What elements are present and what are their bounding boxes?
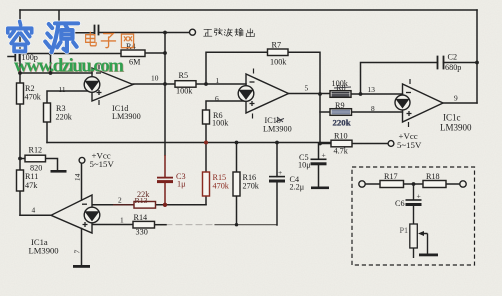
wire top feedback rail	[20, 9, 477, 11]
svg-text:820: 820	[30, 164, 42, 173]
svg-text:5: 5	[305, 84, 309, 93]
svg-text:10: 10	[151, 74, 159, 83]
wire C5 bottom lead	[318, 165, 320, 187]
wire C6 to P1	[413, 206, 415, 224]
wire node A to R4	[51, 52, 166, 55]
svg-text:470k: 470k	[25, 93, 42, 102]
svg-text:+: +	[278, 168, 282, 177]
wire R16 top	[236, 143, 238, 173]
ground under C5	[311, 187, 329, 190]
wire top cap stub	[59, 11, 94, 33]
svg-text:9: 9	[454, 94, 458, 103]
resistor R18	[423, 181, 446, 188]
label sine wave output	[204, 28, 255, 36]
junction R10 C5	[318, 142, 322, 146]
wire R8 to IC1c minus	[351, 93, 403, 95]
char chu	[246, 29, 254, 37]
resistor R14 330	[133, 221, 155, 228]
junction node B output	[163, 31, 167, 35]
terminal Vcc2	[388, 141, 394, 147]
svg-text:1μ: 1μ	[177, 180, 186, 189]
char xian	[214, 28, 222, 35]
wire R7 left riser	[206, 52, 268, 84]
wire right rail from top to IC1c output	[476, 10, 478, 103]
wire IC1a output pin4	[20, 214, 51, 216]
junction node B pin10	[163, 82, 167, 86]
svg-text:4.7k: 4.7k	[334, 147, 349, 156]
svg-text:R18: R18	[426, 172, 440, 181]
wire C2 to right rail	[444, 62, 478, 64]
svg-text:220k: 220k	[333, 118, 351, 128]
svg-text:R11: R11	[25, 172, 38, 181]
wire R6 bottom	[205, 124, 207, 143]
svg-text:47k: 47k	[25, 181, 38, 190]
resistor R4 6M	[121, 50, 145, 57]
strike IC1b	[276, 117, 284, 122]
wire R3 bottom to long rail	[46, 122, 48, 143]
wire IC1d output pin10	[133, 83, 246, 85]
svg-text:680p: 680p	[445, 63, 461, 72]
wire P1 bottom stub	[413, 248, 415, 258]
wire C4 top lead	[276, 143, 278, 177]
junction C2 right rail	[475, 61, 479, 65]
capacitor C6	[406, 199, 422, 201]
svg-text:C6: C6	[395, 199, 405, 208]
watermark orange char Wang	[121, 34, 133, 48]
wire IC1d minus input	[20, 72, 92, 74]
wire R15 bottom	[205, 196, 207, 205]
wire Vcc1 down to IC1a pin14	[81, 163, 83, 200]
svg-text:R5: R5	[179, 71, 189, 80]
resistor R17	[380, 181, 404, 188]
resistor R11 47k	[17, 170, 24, 191]
junction node 13	[359, 92, 363, 96]
svg-text:2.2μ: 2.2μ	[290, 183, 305, 192]
opamp IC1d	[84, 65, 133, 106]
wire node B vertical	[164, 33, 166, 156]
wire long middle rail	[47, 142, 331, 144]
wire R10 branch to Vcc terminal	[320, 143, 388, 145]
junction dot red R6 R15	[204, 141, 208, 145]
opamp IC1c	[395, 79, 443, 127]
junction R17 R18 C6	[412, 182, 416, 186]
resistor R9 220k	[330, 109, 352, 116]
wire R15 top	[205, 143, 207, 173]
svg-text:470k: 470k	[213, 182, 230, 191]
svg-text:R12: R12	[29, 146, 43, 155]
svg-text:6M: 6M	[129, 58, 141, 67]
watermark orange char Zi	[101, 34, 115, 48]
resistor R16 270k	[233, 172, 240, 196]
svg-text:LM3900: LM3900	[440, 123, 472, 133]
wire R7 right to IC1b output node	[288, 52, 320, 143]
capacitor C4 2.2u	[269, 177, 285, 181]
svg-text:100k: 100k	[212, 119, 229, 128]
wire cap to output terminal	[99, 32, 190, 34]
wire left rail through R2 R11	[19, 73, 21, 215]
svg-text:10μ: 10μ	[298, 161, 311, 170]
svg-text:LM3900: LM3900	[263, 125, 292, 134]
resistor R6 100k	[203, 110, 210, 124]
capacitor 100p plates	[15, 53, 19, 61]
terminal box right	[460, 181, 466, 187]
svg-text:270k: 270k	[243, 182, 260, 191]
wire box terminals to R17 R18	[365, 183, 460, 185]
svg-text:4: 4	[32, 206, 36, 215]
wire node13 riser to C2	[361, 63, 438, 95]
text labels layer	[22, 41, 473, 256]
svg-text:2: 2	[118, 196, 122, 205]
svg-text:C2: C2	[448, 53, 458, 62]
svg-text:6: 6	[215, 94, 219, 103]
wire red tint IC1a to R13	[113, 204, 134, 206]
wire IC1b output pin5	[289, 93, 331, 95]
junction R2 top	[18, 71, 22, 75]
wire C5 top lead	[318, 144, 320, 160]
wire left rail upper	[19, 10, 21, 73]
watermark orange char Dian	[86, 32, 97, 46]
svg-text:R10: R10	[334, 132, 348, 141]
resistor R10 4.7k	[331, 140, 352, 147]
svg-text:P1: P1	[400, 226, 409, 235]
junction R16 bottom	[235, 223, 238, 226]
svg-text:R13: R13	[135, 196, 148, 205]
svg-text:R14: R14	[134, 213, 148, 222]
junction IC1b output	[318, 92, 322, 96]
capacitor C1 plates	[95, 26, 99, 35]
junction R12 rail	[18, 157, 22, 161]
svg-text:R17: R17	[384, 172, 398, 181]
wire C4 bottom lead	[276, 182, 278, 226]
svg-text:100k: 100k	[176, 87, 193, 96]
terminal sine output	[190, 29, 196, 35]
svg-text:5~15V: 5~15V	[90, 159, 115, 169]
svg-text:www.dziuu.com: www.dziuu.com	[14, 56, 124, 77]
wire R13 to R15 node	[156, 204, 207, 206]
svg-text:330: 330	[136, 228, 148, 237]
svg-text:5~15V: 5~15V	[397, 140, 422, 150]
opamp IC1a points left	[51, 195, 100, 233]
svg-text:LM3900: LM3900	[29, 246, 59, 256]
resistor R15 470k	[203, 172, 210, 196]
wire node A horizontal	[20, 53, 51, 55]
wiper arrow	[421, 234, 428, 254]
wire IC1d plus input from R3	[47, 91, 92, 103]
junction C4 top	[275, 141, 279, 145]
resistor R8 100k	[330, 91, 351, 98]
svg-text:13: 13	[368, 85, 376, 94]
watermark blue char Yuan	[45, 23, 78, 52]
svg-text:+: +	[322, 151, 326, 160]
svg-text:1: 1	[216, 76, 220, 85]
opamp IC1b	[238, 69, 288, 119]
wire IC1a plus input to R14	[93, 224, 133, 226]
wire IC1a minus input to R13	[93, 204, 135, 206]
junction node B R4	[163, 51, 167, 55]
potentiometer P1	[410, 224, 418, 248]
ground under wiper	[419, 254, 438, 257]
char shu	[235, 28, 243, 36]
wire IC1a pin7 to ground	[81, 229, 83, 266]
wire IC1b plus input from R6	[206, 101, 246, 110]
svg-text:+: +	[417, 192, 421, 201]
junction R16 top	[235, 141, 239, 145]
svg-text:1: 1	[120, 216, 124, 225]
resistor R5 100k	[175, 81, 196, 88]
junction R5 R7	[204, 82, 208, 86]
wire node A down	[50, 54, 52, 74]
wire IC1c output pin9	[443, 102, 477, 104]
terminal Vcc1	[79, 157, 85, 163]
svg-text:220k: 220k	[56, 113, 73, 122]
svg-text:IC1c: IC1c	[443, 113, 461, 123]
char bo	[224, 29, 232, 37]
resistor R12 820	[25, 155, 46, 162]
resistor R13 22k	[134, 202, 156, 209]
svg-text:R7: R7	[272, 41, 282, 50]
wire R12 branch	[20, 159, 58, 170]
wire R9 branch	[320, 111, 403, 113]
svg-text:14: 14	[72, 173, 82, 181]
ground under R12	[51, 170, 67, 173]
capacitor C2 plates	[438, 57, 444, 69]
char zheng	[204, 29, 212, 36]
capacitor 100p stub	[8, 56, 15, 58]
resistor R2 470k	[17, 49, 447, 228]
wire R14 right faded	[155, 224, 167, 226]
svg-text:100k: 100k	[270, 58, 287, 67]
capacitor C5 10u	[311, 159, 327, 164]
svg-text:R9: R9	[335, 101, 345, 110]
wire R16 bottom	[236, 196, 238, 225]
junction dot red C3 bottom	[163, 203, 167, 207]
resistor R7 100k	[268, 49, 289, 56]
strike mark R8	[334, 87, 351, 88]
svg-text:8: 8	[371, 104, 375, 113]
wire C6 riser	[413, 184, 415, 200]
junction node A bottom	[49, 71, 53, 75]
terminal box left	[359, 181, 365, 187]
dashed tuning box	[352, 167, 475, 265]
svg-text:LM3900: LM3900	[112, 112, 141, 121]
resistor R3 220k	[44, 103, 51, 122]
watermark blue char Rong	[8, 22, 32, 52]
svg-text:11: 11	[59, 85, 66, 94]
capacitor C3 1u red	[157, 155, 173, 205]
ground IC1a pin7	[73, 265, 90, 268]
junction node A top	[49, 52, 53, 56]
